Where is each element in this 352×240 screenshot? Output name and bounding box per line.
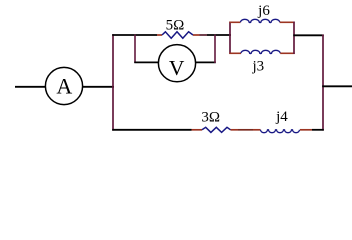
svg-text:j3: j3 <box>251 58 264 74</box>
wire: red lead left of inductor L2 (j3) <box>229 52 241 54</box>
wire: left terminal lead into ammeter <box>15 86 46 88</box>
wire: left vertical bus <box>112 34 114 130</box>
ammeter A1 circle <box>45 67 82 104</box>
wire: red lead right of inductor L1 (j6) <box>280 21 295 23</box>
wire: voltmeter left horizontal connection <box>134 61 159 63</box>
svg-text:j6: j6 <box>257 3 270 19</box>
wire: red lead right of inductor L2 (j3) <box>280 52 295 54</box>
svg-text:A: A <box>56 74 72 99</box>
voltmeter V1 circle <box>158 45 195 82</box>
wire: bottom branch right black section to corner <box>312 129 324 131</box>
wire: red lead right of inductor L3 (j4) <box>300 129 312 131</box>
svg-text:3Ω: 3Ω <box>201 110 220 126</box>
wire: red lead left of resistor R1 <box>157 34 162 36</box>
wire: voltmeter right rise stub <box>214 35 216 64</box>
wire: dark segment right of resistor lead <box>200 34 208 36</box>
resistor R2 3ohm zigzag <box>202 127 231 132</box>
wire: coil box exit to right vertical bus <box>293 34 324 36</box>
svg-text:V: V <box>169 56 185 80</box>
wire: voltmeter right horizontal connection <box>195 61 216 63</box>
wire: ammeter to left vertical bus <box>83 86 114 88</box>
wire: bottom branch horizontal (left black section) <box>112 129 191 131</box>
wire: right vertical bus <box>322 35 324 131</box>
inductor L1 j6 coil <box>241 19 280 22</box>
svg-text:5Ω: 5Ω <box>166 17 185 33</box>
wire: dark red middle segment between R2 and L3 <box>238 129 253 131</box>
wire: voltmeter left drop stub <box>134 35 136 64</box>
wire: parallel coil box left vertical <box>229 22 231 55</box>
resistor R1 5ohm zigzag <box>162 32 193 38</box>
wire: top branch horizontal (left black section) <box>112 34 157 36</box>
inductor L3 j4 coil (humps down) <box>261 130 300 133</box>
svg-text:j4: j4 <box>275 109 288 125</box>
wire: red lead right of resistor R1 <box>193 34 200 36</box>
inductor L2 j3 coil <box>241 50 280 53</box>
wire: red lead left of resistor R2 <box>192 129 203 131</box>
wire: parallel coil box right vertical <box>293 22 295 55</box>
wire: red lead left of inductor L3 (j4) <box>253 129 261 131</box>
wire: top branch horizontal (right black section to coil box) <box>207 34 231 36</box>
wire: red lead right of resistor R2 <box>231 129 239 131</box>
wire: right middle terminal lead to edge <box>322 85 352 87</box>
wire: red lead left of inductor L1 (j6) <box>229 21 240 23</box>
